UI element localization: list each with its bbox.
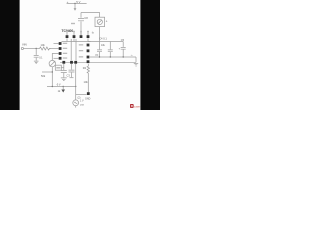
node pot tap junction <box>52 71 53 72</box>
potentiometer P1 circle <box>49 60 55 66</box>
wire C2 lead <box>63 64 65 70</box>
svg-text:1 V: 1 V <box>80 100 84 103</box>
wire input cap lead <box>35 49 37 55</box>
U1 bottom pin pads <box>62 61 65 64</box>
wire pot bottom lead <box>51 67 53 87</box>
U1 right pin pads <box>87 44 90 47</box>
pin name marks right rows <box>79 44 83 45</box>
wire pot wiper tap <box>42 71 52 73</box>
wire second rail <box>90 61 136 63</box>
wire source bottom tick <box>75 106 77 108</box>
+5V supply rail <box>67 3 87 5</box>
potentiometer P1 wiper arrow <box>50 61 55 66</box>
supply arrowhead <box>74 8 77 10</box>
meter M1 box <box>95 17 105 26</box>
svg-text:+: + <box>106 19 108 23</box>
U1 left pin pads <box>59 42 62 45</box>
svg-text:10k: 10k <box>41 43 46 47</box>
wire to meter <box>81 13 100 18</box>
svg-text:+: + <box>67 0 69 4</box>
wire integrator long lead <box>75 64 77 100</box>
ground triangle <box>61 90 65 93</box>
node rail dots <box>99 56 100 57</box>
wire input terminal lead <box>24 48 40 50</box>
wire box to C2 <box>61 67 64 69</box>
capacitor C4 <box>97 50 102 52</box>
wire rail end drop <box>135 57 137 62</box>
ground rail end <box>134 63 138 66</box>
wire left pin1 stub <box>54 43 59 45</box>
svg-text:C4 0.1: C4 0.1 <box>99 37 107 41</box>
wire C3 lead <box>71 64 73 70</box>
capacitor C6 <box>108 50 113 52</box>
pad source return <box>87 92 90 95</box>
svg-text:5 V: 5 V <box>76 0 80 4</box>
wire C8 top lead <box>80 13 82 18</box>
wire left pin4 stub <box>54 57 59 59</box>
svg-text:C3: C3 <box>67 74 71 78</box>
label C8 value mark <box>71 23 75 24</box>
capacitor C2 <box>61 71 67 73</box>
pin number marks above top pads <box>66 31 68 33</box>
capacitor C8 <box>78 19 84 21</box>
wire top pin stubs up <box>67 33 88 35</box>
node supply junction <box>74 3 75 4</box>
IC U1 body right edge <box>75 39 77 61</box>
svg-text:50k: 50k <box>41 74 46 78</box>
svg-text:VIN: VIN <box>22 43 27 47</box>
svg-text:-5 V: -5 V <box>56 83 61 86</box>
svg-text:fO: fO <box>96 53 99 57</box>
wire top pin stubs down <box>67 38 88 41</box>
node rail junctions <box>52 86 53 87</box>
resistor R1 <box>40 47 51 50</box>
svg-text:ALLDATASHEET: ALLDATASHEET <box>134 106 140 109</box>
source V1 circle <box>73 100 79 106</box>
capacitor C3 <box>69 70 75 72</box>
capacitor C1 <box>34 55 39 57</box>
meter M1 circle <box>97 19 102 24</box>
wire meter to pin <box>99 27 101 42</box>
wire C4 leads <box>99 42 101 58</box>
wire C8 bottom lead <box>80 21 82 35</box>
resistor R2 <box>87 64 89 92</box>
svg-text:(2): (2) <box>78 97 81 100</box>
capacitor C5 <box>121 47 126 49</box>
pin name marks left rows <box>63 43 67 44</box>
wire fout rail <box>90 56 136 58</box>
U1 top pin pads <box>66 35 69 38</box>
component box X1 <box>55 65 61 70</box>
wire IC top edge <box>62 41 91 43</box>
wire R1 to pin <box>50 48 59 50</box>
svg-text:C8: C8 <box>84 16 88 20</box>
wire right upper rail <box>88 41 123 43</box>
watermark logo icon <box>130 104 134 108</box>
wire negative supply rail <box>47 86 76 88</box>
svg-text:GND: GND <box>85 98 91 101</box>
wire C5 leads <box>122 42 124 58</box>
node input junction <box>36 48 37 49</box>
ground C1 <box>34 61 39 64</box>
wire source top rail <box>76 93 87 95</box>
wire left pin3 to pot <box>52 54 58 61</box>
wire supply stub down <box>74 4 76 10</box>
IC U1 body left edge <box>70 39 72 61</box>
wire ground branch <box>62 87 64 90</box>
wire IC bottom edge <box>60 61 90 63</box>
svg-text:C5: C5 <box>121 38 125 42</box>
svg-text:10k: 10k <box>84 80 89 84</box>
ground C2 <box>61 78 67 81</box>
svg-text:R2: R2 <box>83 66 87 70</box>
terminal VIN circle <box>21 47 23 49</box>
box X1 label mark <box>56 67 60 69</box>
wire C6 leads <box>109 42 111 58</box>
